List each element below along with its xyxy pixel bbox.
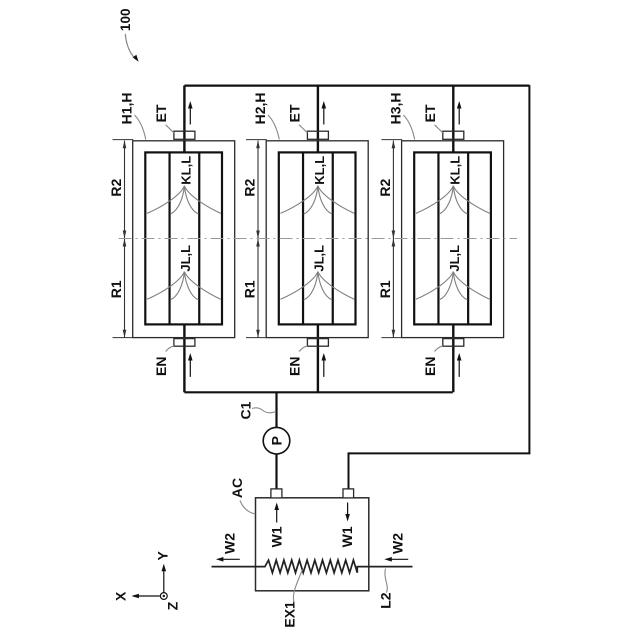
coordinate axes origin Z xyxy=(160,593,167,600)
wire outlet pipe bottom of H1 xyxy=(183,324,185,392)
svg-text:EX1: EX1 xyxy=(281,601,297,628)
svg-text:P: P xyxy=(269,436,285,445)
flow arrow W2 right xyxy=(384,557,408,562)
heat exchanger H3 group xyxy=(377,86,504,393)
svg-text:C1: C1 xyxy=(238,401,254,419)
partition wall left in H1 xyxy=(168,152,170,324)
centerline dash-dot through all units xyxy=(119,238,518,240)
wire pump to AC left port xyxy=(275,454,277,490)
flange ET connector of H1 xyxy=(174,131,195,139)
svg-text:EN: EN xyxy=(422,357,438,376)
spray curves fan at JL,L level in H1 xyxy=(147,272,221,300)
svg-text:ET: ET xyxy=(286,104,302,122)
pump P xyxy=(263,427,290,454)
label ET with leader of H1 xyxy=(153,104,174,133)
flow arrow at EN of H2 xyxy=(322,353,327,377)
flange EN connector of H1 xyxy=(174,339,195,347)
partition wall left in H3 xyxy=(437,152,439,324)
spray curves fan at KL,L level in H3 xyxy=(416,186,490,214)
wire outlet pipe bottom of H3 xyxy=(452,324,454,392)
wire inlet pipe top of H1 xyxy=(183,86,185,153)
svg-text:ET: ET xyxy=(422,104,438,122)
svg-text:Z: Z xyxy=(164,601,180,610)
label H2,H with leader xyxy=(252,92,279,139)
label 100 xyxy=(118,9,139,62)
svg-text:R1: R1 xyxy=(108,280,124,298)
svg-text:W2: W2 xyxy=(389,533,405,554)
label EX1 with leader xyxy=(281,570,302,628)
dimension extension ticks for H1 xyxy=(113,140,134,338)
outer shell of H1 xyxy=(133,141,235,338)
dimension line R1 of H1 xyxy=(123,239,127,338)
wire inlet pipe top of H3 xyxy=(452,86,454,153)
svg-text:JL,L: JL,L xyxy=(447,245,462,272)
label EN with leader of H2 xyxy=(286,346,307,376)
svg-text:KL,L: KL,L xyxy=(312,156,327,185)
svg-text:R2: R2 xyxy=(242,179,258,197)
svg-text:JL,L: JL,L xyxy=(178,245,193,272)
label L2 with leader xyxy=(378,569,394,609)
label ET with leader of H3 xyxy=(422,104,443,133)
AC casing xyxy=(256,498,369,591)
svg-text:Y: Y xyxy=(154,550,170,560)
heat exchanger H2 group xyxy=(242,86,369,393)
flow arrow at ET of H3 xyxy=(457,101,462,125)
label C1 with leader xyxy=(238,401,277,419)
flow arrow W1 left (up) xyxy=(274,503,279,523)
svg-text:R1: R1 xyxy=(242,280,258,298)
flow arrow at EN of H1 xyxy=(188,353,193,377)
svg-text:KL,L: KL,L xyxy=(179,156,194,185)
svg-text:X: X xyxy=(113,591,129,601)
svg-text:KL,L: KL,L xyxy=(448,156,463,185)
svg-text:W1: W1 xyxy=(268,526,284,547)
wire outlet pipe bottom of H2 xyxy=(317,324,319,392)
svg-text:AC: AC xyxy=(229,478,245,498)
svg-text:100: 100 xyxy=(118,9,133,32)
wire bottom bus collecting EN outlets xyxy=(184,391,452,393)
outer shell of H2 xyxy=(266,141,368,338)
flow arrow at EN of H3 xyxy=(457,353,462,377)
svg-text:R2: R2 xyxy=(108,179,124,197)
label H1,H with leader xyxy=(119,92,146,139)
svg-text:H2,H: H2,H xyxy=(252,92,268,124)
label EN with leader of H3 xyxy=(422,346,443,376)
svg-text:ET: ET xyxy=(153,104,169,122)
partition wall right in H1 xyxy=(198,152,200,324)
dimension line R2 of H3 xyxy=(392,140,396,238)
heat exchanger H1 group xyxy=(108,86,235,393)
wire inlet pipe top of H2 xyxy=(317,86,319,153)
outer shell of H3 xyxy=(402,141,504,338)
AC right port xyxy=(343,489,354,498)
svg-text:R1: R1 xyxy=(377,280,393,298)
wire C1 drop to pump xyxy=(275,392,277,428)
svg-text:H3,H: H3,H xyxy=(387,92,403,124)
flange EN connector of H2 xyxy=(307,339,328,347)
flange EN connector of H3 xyxy=(443,339,464,347)
partition wall left in H2 xyxy=(302,152,304,324)
svg-text:W2: W2 xyxy=(221,533,237,554)
spray curves fan at JL,L level in H2 xyxy=(281,272,355,300)
svg-text:L2: L2 xyxy=(378,592,394,609)
wire horizontal to AC right port xyxy=(349,452,531,454)
label AC with leader xyxy=(229,478,256,514)
air duct line L2 with electric heater EX1 zigzag xyxy=(212,560,413,573)
AC left port xyxy=(271,489,282,498)
flange ET connector of H2 xyxy=(307,131,328,139)
flow arrow at ET of H1 xyxy=(188,101,193,125)
flange ET connector of H3 xyxy=(443,131,464,139)
wire down into AC right port xyxy=(348,452,350,489)
axis arrow Y (up) xyxy=(162,564,167,593)
core (inner vessel) of H2 xyxy=(279,152,356,324)
dimension line R1 of H2 xyxy=(256,239,260,338)
dimension line R1 of H3 xyxy=(392,239,396,338)
core (inner vessel) of H3 xyxy=(414,152,491,324)
spray curves fan at KL,L level in H1 xyxy=(147,186,221,214)
dimension extension ticks for H2 xyxy=(246,140,267,338)
axis arrow X (left) xyxy=(131,594,160,599)
svg-text:EN: EN xyxy=(286,357,302,376)
partition wall right in H2 xyxy=(332,152,334,324)
dimension line R2 of H1 xyxy=(123,140,127,238)
flow arrow W1 right (down) xyxy=(345,503,350,522)
wire right vertical drop xyxy=(528,85,530,453)
flow arrow W2 left xyxy=(216,557,240,562)
wire top bus from H1 outlet to right side xyxy=(184,84,529,86)
dimension line R2 of H2 xyxy=(256,140,260,238)
core (inner vessel) of H1 xyxy=(145,152,222,324)
svg-text:H1,H: H1,H xyxy=(119,92,135,124)
label H3,H with leader xyxy=(387,92,414,139)
spray curves fan at JL,L level in H3 xyxy=(416,272,490,300)
spray curves fan at KL,L level in H2 xyxy=(281,186,355,214)
flow arrow at ET of H2 xyxy=(322,101,327,125)
dimension extension ticks for H3 xyxy=(381,140,402,338)
svg-text:W1: W1 xyxy=(339,526,355,547)
svg-text:JL,L: JL,L xyxy=(311,245,326,272)
svg-text:EN: EN xyxy=(153,357,169,376)
label ET with leader of H2 xyxy=(286,104,307,133)
partition wall right in H3 xyxy=(467,152,469,324)
svg-text:R2: R2 xyxy=(377,179,393,197)
label EN with leader of H1 xyxy=(153,346,174,376)
